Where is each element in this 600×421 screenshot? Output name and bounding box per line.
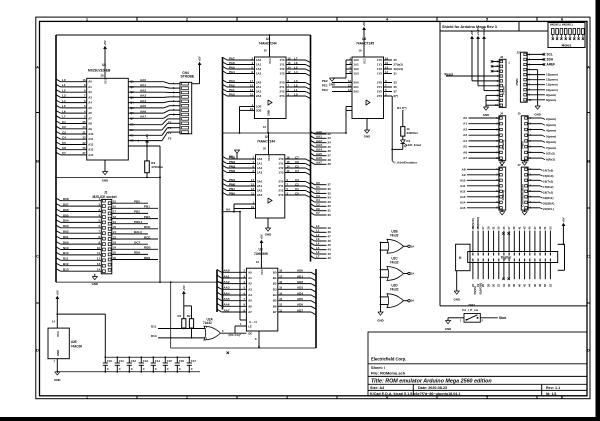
svg-text:B1: B1 <box>273 276 277 280</box>
svg-text:C7: C7 <box>295 155 299 159</box>
svg-text:L6: L6 <box>294 61 298 65</box>
svg-text:2A3: 2A3 <box>257 193 263 197</box>
svg-text:44: 44 <box>528 284 532 287</box>
svg-text:74AC00: 74AC00 <box>71 344 83 348</box>
svg-text:GND: GND <box>445 327 451 331</box>
svg-text:B0: B0 <box>273 270 277 274</box>
svg-text:VCC: VCC <box>267 155 271 161</box>
svg-text:45: 45 <box>328 243 332 247</box>
svg-text:C7: C7 <box>62 151 66 155</box>
svg-text:74AHCT245: 74AHCT245 <box>356 41 374 45</box>
svg-text:2A1: 2A1 <box>354 85 360 89</box>
svg-text:2A0: 2A0 <box>256 81 262 85</box>
svg-text:PA7: PA7 <box>229 56 235 60</box>
svg-text:12: 12 <box>279 303 282 307</box>
svg-text:16: 16 <box>287 160 290 164</box>
svg-text:AA0: AA0 <box>224 269 230 273</box>
svg-text:28: 28 <box>101 74 104 78</box>
svg-text:RDB: RDB <box>144 246 151 250</box>
svg-text:13: 13 <box>279 297 282 301</box>
svg-text:A11: A11 <box>460 184 466 188</box>
svg-text:C14: C14 <box>155 359 161 363</box>
svg-text:A: A <box>587 64 590 69</box>
svg-text:L4: L4 <box>294 70 298 74</box>
svg-text:1Y3: 1Y3 <box>280 72 285 76</box>
svg-text:16: 16 <box>83 78 86 82</box>
svg-text:1OE: 1OE <box>256 105 262 109</box>
svg-text:J7: J7 <box>518 163 522 167</box>
svg-text:PA3: PA3 <box>229 79 235 83</box>
svg-text:16: 16 <box>385 61 388 65</box>
svg-text:8(pwm): 8(pwm) <box>546 98 556 102</box>
svg-text:1Y1: 1Y1 <box>280 63 285 67</box>
svg-text:1Y2: 1Y2 <box>377 67 382 71</box>
svg-text:+5V: +5V <box>260 234 264 239</box>
svg-text:2Y2: 2Y2 <box>279 189 284 193</box>
svg-text:J5: J5 <box>518 112 522 116</box>
svg-text:29(rx2): 29(rx2) <box>394 67 404 71</box>
svg-text:A7: A7 <box>248 310 252 314</box>
svg-text:BY: BY <box>130 128 134 132</box>
svg-text:29: 29 <box>328 162 332 166</box>
svg-text:Analog: Analog <box>501 190 505 200</box>
svg-text:AD2: AD2 <box>297 280 303 284</box>
svg-text:B: B <box>36 158 39 163</box>
svg-text:D05: D05 <box>63 213 69 217</box>
svg-text:RCE: RCE <box>144 225 150 229</box>
svg-text:A1: A1 <box>88 85 92 89</box>
svg-text:12: 12 <box>288 70 291 74</box>
svg-text:19: 19 <box>251 205 254 209</box>
svg-text:GND: GND <box>54 378 60 382</box>
svg-text:L0: L0 <box>62 78 66 82</box>
svg-text:D: D <box>587 347 590 352</box>
svg-text:(DC-CA)*: (DC-CA)* <box>229 333 242 337</box>
svg-text:1A0: 1A0 <box>354 58 360 62</box>
svg-text:27: 27 <box>83 151 86 155</box>
svg-text:5(Tx3): 5(Tx3) <box>546 152 555 156</box>
svg-text:2Y3: 2Y3 <box>279 193 284 197</box>
svg-text:AD5: AD5 <box>297 297 303 301</box>
svg-text:A8: A8 <box>88 122 92 126</box>
svg-text:2Y1: 2Y1 <box>377 85 382 89</box>
svg-text:+5V: +5V <box>470 30 474 35</box>
svg-text:C5: C5 <box>62 141 66 145</box>
svg-text:14: 14 <box>287 164 290 168</box>
svg-text:14: 14 <box>385 65 388 69</box>
svg-text:+5V: +5V <box>362 21 366 26</box>
svg-text:GND: GND <box>453 297 459 301</box>
svg-text:1A1: 1A1 <box>257 162 263 166</box>
svg-text:1A2: 1A2 <box>257 166 263 170</box>
svg-text:C3: C3 <box>62 130 66 134</box>
svg-text:PM4: PM4 <box>229 160 236 164</box>
svg-text:30: 30 <box>328 213 332 217</box>
svg-text:D: D <box>36 347 39 352</box>
svg-text:L4: L4 <box>62 99 66 103</box>
svg-text:+5V: +5V <box>103 40 107 45</box>
svg-text:C4: C4 <box>295 169 299 173</box>
svg-text:10: 10 <box>97 246 100 250</box>
svg-text:16: 16 <box>279 280 282 284</box>
svg-text:2A3: 2A3 <box>256 94 262 98</box>
svg-text:U1: U1 <box>102 63 106 67</box>
svg-text:C5: C5 <box>316 203 320 207</box>
svg-text:1A3: 1A3 <box>257 171 263 175</box>
svg-text:Size: A4: Size: A4 <box>370 386 385 390</box>
svg-text:23: 23 <box>328 136 332 140</box>
svg-text:A14: A14 <box>88 153 94 157</box>
svg-text:N10: N10 <box>63 246 69 250</box>
svg-text:PWL1: PWL1 <box>134 220 143 224</box>
svg-text:15: 15 <box>250 83 253 87</box>
svg-text:14: 14 <box>97 268 100 272</box>
svg-text:5(pwm): 5(pwm) <box>546 134 556 138</box>
svg-text:GND: GND <box>265 233 271 237</box>
svg-text:17(Rx2): 17(Rx2) <box>543 185 554 189</box>
svg-text:AD3: AD3 <box>297 286 303 290</box>
svg-text:18: 18 <box>385 56 388 60</box>
svg-text:74x32: 74x32 <box>390 233 399 237</box>
svg-text:C10: C10 <box>107 359 113 363</box>
svg-text:B11: B11 <box>63 257 69 261</box>
svg-text:PWM: PWM <box>520 141 524 149</box>
svg-text:12: 12 <box>348 79 351 83</box>
svg-text:2Y1: 2Y1 <box>280 85 285 89</box>
svg-text:Q0: Q0 <box>130 80 134 84</box>
svg-text:AA7: AA7 <box>316 161 322 165</box>
svg-text:Q3: Q3 <box>130 95 134 99</box>
svg-text:A7: A7 <box>463 156 467 160</box>
svg-text:C: C <box>167 367 169 371</box>
svg-text:PB3: PB3 <box>144 215 150 219</box>
svg-text:2A2: 2A2 <box>256 90 262 94</box>
svg-text:48: 48 <box>538 284 542 287</box>
svg-text:20: 20 <box>113 225 116 229</box>
svg-text:U3: U3 <box>259 248 263 252</box>
svg-text:L2: L2 <box>62 89 66 93</box>
svg-text:C15: C15 <box>167 359 173 363</box>
svg-text:A15: A15 <box>460 206 466 210</box>
svg-text:C2: C2 <box>295 182 299 186</box>
svg-text:2Y0: 2Y0 <box>280 81 285 85</box>
svg-text:6(pwm): 6(pwm) <box>546 140 556 144</box>
svg-text:PM5: PM5 <box>229 155 236 159</box>
svg-text:C: C <box>107 367 109 371</box>
svg-text:2OE: 2OE <box>256 108 262 112</box>
svg-text:15(Rx3): 15(Rx3) <box>543 174 554 178</box>
svg-text:470Ohm: 470Ohm <box>151 165 163 169</box>
svg-text:I_AddrEmulator: I_AddrEmulator <box>394 160 418 164</box>
svg-text:M25-ICE socket: M25-ICE socket <box>93 195 118 199</box>
svg-text:OE: OE <box>130 139 134 143</box>
svg-text:A10: A10 <box>460 178 466 182</box>
svg-text:A2: A2 <box>463 128 467 132</box>
svg-text:Title: ROM emulator Arduino Me: Title: ROM emulator Arduino Mega 2560 ed… <box>371 378 492 384</box>
svg-text:A6: A6 <box>463 150 467 154</box>
svg-text:L3: L3 <box>294 79 298 83</box>
svg-text:Date: 2020-08-23: Date: 2020-08-23 <box>418 386 447 390</box>
svg-text:48: 48 <box>328 230 332 234</box>
svg-text:PN0: PN0 <box>229 191 235 195</box>
svg-text:12: 12 <box>97 257 100 261</box>
svg-text:14: 14 <box>279 291 282 295</box>
svg-text:RD9: RD9 <box>134 251 140 255</box>
svg-text:17: 17 <box>251 178 254 182</box>
svg-text:AA4: AA4 <box>224 291 230 295</box>
svg-text:RS: RS <box>130 133 134 137</box>
svg-text:C12: C12 <box>131 359 137 363</box>
svg-text:51: 51 <box>543 226 547 229</box>
svg-text:SW1: SW1 <box>469 303 476 307</box>
svg-text:D04: D04 <box>63 219 69 223</box>
svg-text:J3: J3 <box>517 51 521 55</box>
svg-text:R4 7(*): R4 7(*) <box>397 106 407 110</box>
svg-text:10(pwm): 10(pwm) <box>546 88 558 92</box>
svg-text:PA1: PA1 <box>229 88 235 92</box>
svg-text:J4: J4 <box>500 112 504 116</box>
svg-text:A1: A1 <box>463 122 467 126</box>
svg-text:74AHCT244: 74AHCT244 <box>259 41 277 45</box>
svg-text:A13: A13 <box>88 148 94 152</box>
svg-text:L7: L7 <box>294 56 298 60</box>
svg-text:A12: A12 <box>460 189 466 193</box>
svg-text:C: C <box>36 253 39 258</box>
svg-text:24: 24 <box>83 125 86 129</box>
svg-text:GND: GND <box>483 113 489 117</box>
svg-text:AA3: AA3 <box>224 286 230 290</box>
svg-text:+5V: +5V <box>182 285 186 290</box>
svg-text:27(tx2): 27(tx2) <box>394 62 403 66</box>
svg-text:2Y0: 2Y0 <box>377 81 382 85</box>
svg-text:RB: RB <box>130 123 134 127</box>
svg-text:52: 52 <box>548 284 552 287</box>
svg-text:B2: B2 <box>273 282 277 286</box>
svg-text:25: 25 <box>394 58 398 62</box>
svg-text:32: 32 <box>497 284 501 287</box>
svg-text:1Y1: 1Y1 <box>279 162 284 166</box>
svg-text:41: 41 <box>517 226 521 229</box>
svg-text:13: 13 <box>97 262 100 266</box>
svg-text:12: 12 <box>385 70 388 74</box>
svg-text:AA4: AA4 <box>140 99 146 103</box>
svg-text:11(pwm): 11(pwm) <box>546 83 558 87</box>
svg-text:74x32: 74x32 <box>203 321 212 325</box>
svg-text:PA5: PA5 <box>229 65 235 69</box>
svg-text:A7: A7 <box>88 116 92 120</box>
svg-text:C13: C13 <box>143 359 149 363</box>
svg-text:AD6: AD6 <box>297 303 303 307</box>
svg-text:30: 30 <box>492 284 496 287</box>
svg-text:35: 35 <box>502 226 506 229</box>
svg-text:SCL: SCL <box>547 52 553 56</box>
svg-text:AA5: AA5 <box>316 152 322 156</box>
svg-text:A6: A6 <box>88 111 92 115</box>
svg-text:L3: L3 <box>62 94 66 98</box>
svg-text:R2: R2 <box>187 314 191 318</box>
svg-text:OC7: OC7 <box>134 241 141 245</box>
svg-text:AA1: AA1 <box>316 135 322 139</box>
svg-text:1Y3: 1Y3 <box>377 72 382 76</box>
svg-text:Q4: Q4 <box>130 101 134 105</box>
svg-text:3(pwm): 3(pwm) <box>546 123 556 127</box>
svg-text:VCC: VCC <box>268 58 272 64</box>
svg-text:C3: C3 <box>295 178 299 182</box>
svg-text:C: C <box>143 367 145 371</box>
svg-text:14: 14 <box>52 320 55 324</box>
svg-text:Q7: Q7 <box>130 116 134 120</box>
svg-text:1A1: 1A1 <box>256 63 262 67</box>
svg-text:38: 38 <box>512 284 516 287</box>
svg-text:A0: A0 <box>463 116 467 120</box>
svg-text:A14: A14 <box>460 200 466 204</box>
svg-text:19: 19 <box>113 220 116 224</box>
svg-text:GND: GND <box>267 110 271 116</box>
svg-text:B5: B5 <box>273 299 277 303</box>
svg-text:L6: L6 <box>62 109 66 113</box>
svg-text:A - >1: A - >1 <box>249 320 257 324</box>
svg-text:A5: A5 <box>88 106 92 110</box>
svg-text:1A3: 1A3 <box>354 72 360 76</box>
svg-text:22: 22 <box>113 235 116 239</box>
svg-text:21: 21 <box>83 130 86 134</box>
svg-text:Rev: 1.1: Rev: 1.1 <box>546 386 560 390</box>
svg-text:AA1: AA1 <box>140 83 146 87</box>
svg-text:C: C <box>191 367 193 371</box>
svg-text:1A0: 1A0 <box>257 157 263 161</box>
svg-text:12: 12 <box>287 169 290 173</box>
svg-text:50(MISO): 50(MISO) <box>476 217 480 229</box>
svg-text:IOREF: IOREF <box>482 26 486 35</box>
svg-text:OE: OE <box>248 332 252 336</box>
svg-text:45: 45 <box>528 226 532 229</box>
svg-text:C1: C1 <box>62 120 66 124</box>
svg-text:42: 42 <box>328 256 332 260</box>
svg-text:C17: C17 <box>191 359 197 363</box>
svg-text:+5V: +5V <box>198 56 202 61</box>
svg-text:1Y0: 1Y0 <box>279 157 284 161</box>
svg-text:1A2: 1A2 <box>256 67 262 71</box>
svg-text:2A2: 2A2 <box>257 189 263 193</box>
svg-text:43: 43 <box>523 226 527 229</box>
svg-text:VCC: VCC <box>260 269 264 275</box>
svg-text:AA5: AA5 <box>140 104 146 108</box>
svg-text:PB1: PB1 <box>144 205 150 209</box>
svg-text:24: 24 <box>113 246 116 250</box>
svg-text:L2: L2 <box>294 83 298 87</box>
svg-text:16: 16 <box>113 205 116 209</box>
svg-text:PB2: PB2 <box>134 210 140 214</box>
svg-text:17: 17 <box>279 274 282 278</box>
svg-text:A1: A1 <box>248 276 252 280</box>
svg-text:1A3: 1A3 <box>256 72 262 76</box>
svg-text:L5: L5 <box>62 104 66 108</box>
svg-text:53(SS): 53(SS) <box>473 286 477 294</box>
svg-text:PM0: PM0 <box>229 182 236 186</box>
svg-text:PM3: PM3 <box>229 164 236 168</box>
svg-text:+5V: +5V <box>562 217 566 222</box>
svg-text:C: C <box>155 367 157 371</box>
svg-text:A11: A11 <box>88 137 93 141</box>
svg-text:J1: J1 <box>104 191 108 195</box>
svg-text:14: 14 <box>348 88 351 92</box>
svg-text:AA2: AA2 <box>140 89 146 93</box>
svg-text:A8: A8 <box>462 167 466 171</box>
svg-text:RCE: RCE <box>144 235 150 239</box>
svg-text:13(pwm): 13(pwm) <box>546 73 558 77</box>
svg-text:1Y3: 1Y3 <box>279 171 284 175</box>
svg-text:A2: A2 <box>88 90 92 94</box>
svg-text:A3: A3 <box>463 133 467 137</box>
svg-text:Communication: Communication <box>520 184 524 207</box>
svg-text:47: 47 <box>533 226 537 229</box>
svg-text:1A1: 1A1 <box>354 63 360 67</box>
svg-text:C1: C1 <box>295 187 299 191</box>
svg-text:AA5: AA5 <box>224 297 230 301</box>
svg-text:2A2: 2A2 <box>354 90 360 94</box>
svg-text:40: 40 <box>517 284 521 287</box>
svg-text:C11: C11 <box>119 359 124 363</box>
svg-text:52(SCK): 52(SCK) <box>471 218 475 229</box>
svg-text:26: 26 <box>113 256 116 260</box>
svg-text:L5: L5 <box>294 65 298 69</box>
svg-text:PE1: PE1 <box>322 83 328 87</box>
svg-text:18: 18 <box>288 56 291 60</box>
svg-text:74AHCT244: 74AHCT244 <box>257 140 275 144</box>
svg-text:A4: A4 <box>248 293 252 297</box>
svg-text:2Y2: 2Y2 <box>280 90 285 94</box>
svg-text:B: B <box>587 158 590 163</box>
svg-text:14: 14 <box>288 65 291 69</box>
svg-text:74x32: 74x32 <box>390 288 399 292</box>
svg-text:18: 18 <box>279 269 282 273</box>
svg-text:2A1: 2A1 <box>256 85 262 89</box>
svg-text:PA0: PA0 <box>229 92 235 96</box>
svg-text:L7: L7 <box>62 115 66 119</box>
svg-text:51(MOSI): 51(MOSI) <box>478 283 482 295</box>
svg-text:36: 36 <box>507 284 511 287</box>
svg-text:A3: A3 <box>88 95 92 99</box>
svg-text:VCC: VCC <box>56 331 60 337</box>
svg-text:39: 39 <box>512 226 516 229</box>
svg-text:AA0: AA0 <box>140 78 146 82</box>
svg-text:VCC: VCC <box>104 78 108 84</box>
svg-text:AA7: AA7 <box>224 308 230 312</box>
svg-text:C16: C16 <box>179 359 185 363</box>
svg-text:C6: C6 <box>295 160 299 164</box>
svg-text:L1: L1 <box>316 229 320 233</box>
svg-text:13: 13 <box>250 88 253 92</box>
svg-text:Holes: Holes <box>562 43 572 47</box>
svg-text:L0: L0 <box>294 92 298 96</box>
svg-text:A10: A10 <box>88 132 94 136</box>
svg-text:B6: B6 <box>273 304 277 308</box>
svg-text:MX29LV320EB: MX29LV320EB <box>88 69 111 73</box>
svg-text:C1: C1 <box>316 185 320 189</box>
svg-text:GND: GND <box>56 350 60 356</box>
svg-text:4(pwm): 4(pwm) <box>546 129 556 133</box>
svg-text:KiCad E.D.A. kicad 5.1.5-c6e7: KiCad E.D.A. kicad 5.1.5-c6e7f7d~86~ubun… <box>370 392 460 396</box>
svg-text:31: 31 <box>492 226 496 229</box>
svg-text:1A2: 1A2 <box>354 67 360 71</box>
svg-text:AD7: AD7 <box>297 308 303 312</box>
svg-text:C: C <box>131 367 133 371</box>
svg-text:C4: C4 <box>62 136 66 140</box>
svg-text:33: 33 <box>394 80 398 84</box>
svg-text:16: 16 <box>256 260 259 264</box>
svg-text:A0: A0 <box>248 270 252 274</box>
svg-text:9(pwm): 9(pwm) <box>546 93 556 97</box>
